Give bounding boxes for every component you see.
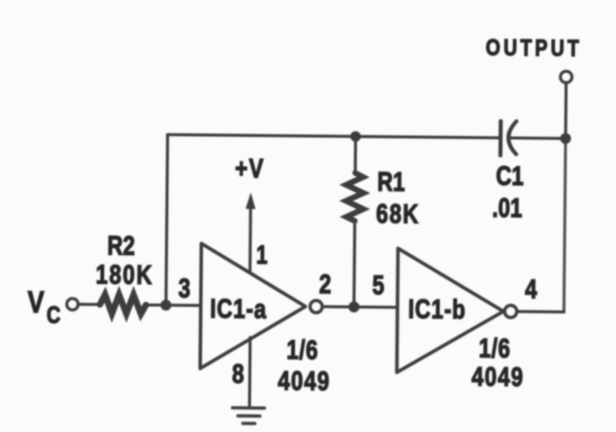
wire IC1-a out to IC1-b in bbox=[323, 305, 397, 309]
svg-text:68K: 68K bbox=[376, 200, 420, 230]
svg-text:180K: 180K bbox=[96, 260, 154, 290]
svg-text:1: 1 bbox=[256, 241, 268, 270]
ground bbox=[232, 406, 264, 410]
wire R2 to IC1-a input bbox=[146, 303, 200, 307]
svg-text:OUTPUT: OUTPUT bbox=[486, 34, 583, 61]
node junction Vc/feedback bbox=[161, 300, 172, 311]
svg-text:V: V bbox=[27, 285, 44, 319]
op-amp U1 inverter IC1-a bbox=[200, 243, 306, 369]
svg-text:+V: +V bbox=[235, 154, 265, 184]
node bubble IC1-b output bbox=[505, 305, 517, 317]
svg-text:8: 8 bbox=[232, 360, 244, 390]
svg-text:IC1-b: IC1-b bbox=[408, 295, 466, 325]
svg-text:C: C bbox=[47, 301, 61, 329]
resistor R2 bbox=[100, 295, 146, 314]
svg-text:1/6: 1/6 bbox=[479, 334, 511, 364]
svg-text:5: 5 bbox=[372, 271, 384, 301]
node junction R1 top bbox=[350, 131, 361, 142]
svg-text:C1: C1 bbox=[496, 161, 524, 191]
svg-text:R1: R1 bbox=[377, 168, 405, 198]
node junction R1 bottom bbox=[348, 301, 359, 312]
wire +V supply pin 1 bbox=[248, 207, 252, 272]
svg-text:IC1-a: IC1-a bbox=[210, 295, 267, 325]
svg-text:4049: 4049 bbox=[471, 362, 524, 392]
resistor R1 bbox=[354, 136, 357, 173]
wire IC1-b out to output node bbox=[517, 310, 563, 313]
capacitor C1 bbox=[498, 121, 502, 155]
op-amp U2 inverter IC1-b bbox=[397, 248, 504, 373]
svg-text:4049: 4049 bbox=[278, 367, 331, 397]
node bubble IC1-a output bbox=[310, 300, 322, 312]
wire feedback vertical left bbox=[166, 135, 168, 305]
svg-text:1/6: 1/6 bbox=[286, 336, 318, 366]
svg-text:R2: R2 bbox=[107, 231, 135, 261]
wire C1 to output node bbox=[509, 136, 566, 140]
wire output terminal lead bbox=[564, 82, 568, 138]
wire feedback top horizontal bbox=[168, 135, 499, 138]
wire pin 8 to ground bbox=[248, 337, 252, 406]
svg-text:2: 2 bbox=[319, 270, 331, 300]
svg-text:.01: .01 bbox=[492, 194, 522, 224]
wire Vc to R2 bbox=[78, 303, 100, 306]
node Vc input terminal bbox=[67, 298, 79, 310]
wire output vertical right bbox=[564, 138, 566, 311]
svg-text:4: 4 bbox=[525, 275, 538, 305]
node OUTPUT terminal bbox=[560, 71, 572, 83]
svg-text:3: 3 bbox=[178, 274, 190, 304]
node junction C1 right bbox=[560, 133, 571, 144]
